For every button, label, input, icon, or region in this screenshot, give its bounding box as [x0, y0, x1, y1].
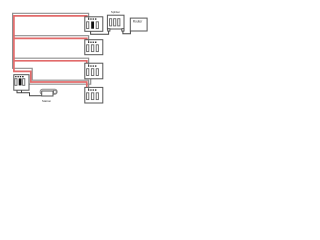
- svg-text:Splitter: Splitter: [111, 10, 120, 14]
- svg-text:Station: Station: [42, 99, 52, 103]
- svg-text:Router: Router: [133, 19, 144, 23]
